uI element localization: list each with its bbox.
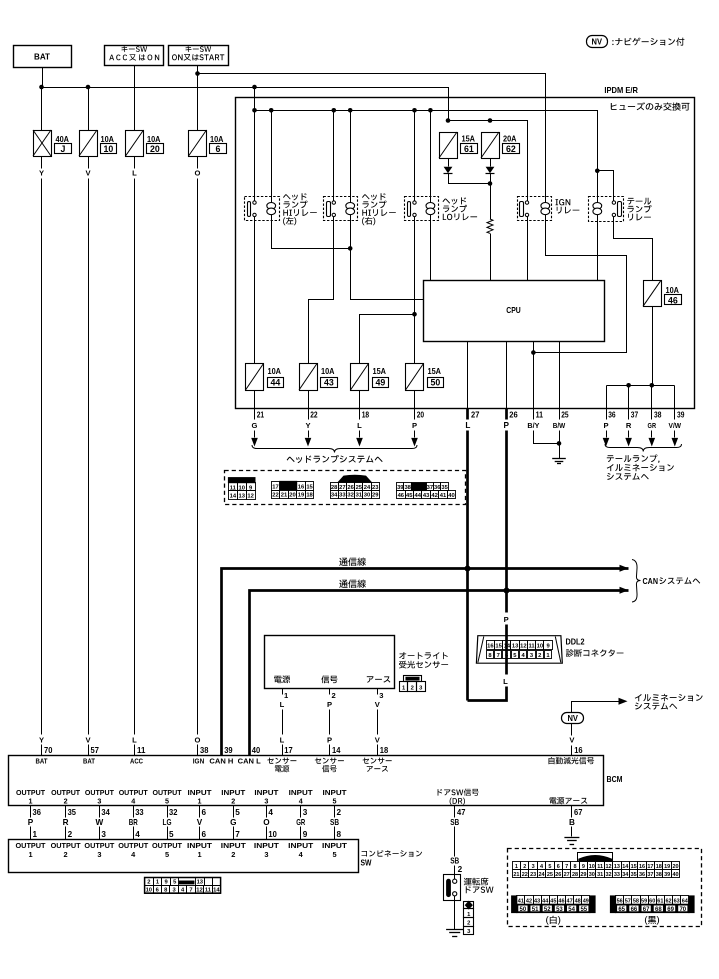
brace headlamp system xyxy=(252,445,417,453)
junction tail bus 38 xyxy=(650,383,655,388)
key switch ON/START xyxy=(169,46,229,66)
svg-text:11: 11 xyxy=(536,411,544,420)
junction LO fuses xyxy=(412,312,417,317)
wire fuse to BCM pin 38 lower xyxy=(197,745,199,756)
svg-text:V/W: V/W xyxy=(669,421,682,430)
wire color P pin 36 xyxy=(603,421,608,430)
BCM label xyxy=(607,775,623,784)
wire relay2 contact to fuse43 xyxy=(309,217,334,364)
svg-text:47: 47 xyxy=(567,899,573,905)
wire color SB door lower xyxy=(450,857,459,866)
connector block 4 xyxy=(397,483,456,500)
wire color L upper xyxy=(132,169,137,178)
svg-text:INPUT: INPUT xyxy=(221,841,247,850)
wire BCM pin 33 upper xyxy=(134,806,145,818)
junction fuse61 feed xyxy=(446,118,451,123)
wire to combo pin 7 xyxy=(234,827,241,840)
wire color O combo xyxy=(263,818,270,827)
svg-text:1: 1 xyxy=(28,850,32,859)
svg-text:4: 4 xyxy=(131,797,135,806)
svg-text:SW: SW xyxy=(361,859,373,868)
svg-text:L: L xyxy=(503,677,508,686)
wire color GR pin 38 xyxy=(648,421,657,430)
svg-text:11: 11 xyxy=(205,888,212,894)
wire START to fuse xyxy=(197,66,199,131)
resistor R1 xyxy=(487,219,493,233)
svg-text:1: 1 xyxy=(198,797,202,806)
junction BAT bus 1 xyxy=(39,85,44,90)
svg-text:40A: 40A xyxy=(56,135,70,144)
svg-text:V: V xyxy=(197,818,203,827)
svg-text:2: 2 xyxy=(64,850,68,859)
wire to combo pin 4 xyxy=(134,827,141,840)
wire to door SW xyxy=(454,827,456,875)
BCM label OUTPUT 2 xyxy=(51,788,81,806)
sensor wire color V lower xyxy=(375,736,381,745)
BCM connector black label xyxy=(645,916,659,925)
BCM label ACC xyxy=(130,757,143,766)
sensor wire color V upper xyxy=(375,700,381,709)
wire BCM pin 5 upper xyxy=(234,806,241,818)
wire arrow pin 36 xyxy=(603,431,610,447)
svg-text:24: 24 xyxy=(538,872,545,878)
svg-text:2: 2 xyxy=(68,830,73,839)
fuse 15A 61 xyxy=(439,132,458,159)
svg-text:7: 7 xyxy=(497,653,500,659)
BCM connector white label xyxy=(546,916,560,925)
svg-text:10: 10 xyxy=(104,144,114,154)
svg-text:2: 2 xyxy=(538,653,541,659)
pin 37 IPDM xyxy=(629,409,639,420)
wire into door SW xyxy=(454,875,456,880)
svg-text:B/Y: B/Y xyxy=(527,421,539,430)
pin 36 IPDM xyxy=(607,409,617,420)
svg-text:14: 14 xyxy=(230,493,237,499)
wire relay3 contact down xyxy=(414,217,416,315)
svg-text:12: 12 xyxy=(196,888,202,894)
fuse 10A 10 xyxy=(79,130,98,157)
svg-text:36: 36 xyxy=(608,411,616,420)
svg-text:46: 46 xyxy=(558,899,564,905)
svg-text:5: 5 xyxy=(165,797,169,806)
svg-text:1: 1 xyxy=(156,880,160,886)
wire BCM pin 32 upper xyxy=(168,806,178,818)
wire color R pin 37 xyxy=(626,421,632,430)
wire arrow pin 22 xyxy=(305,431,312,447)
svg-text:67: 67 xyxy=(643,907,650,913)
svg-text:20A: 20A xyxy=(503,135,517,144)
svg-text:44: 44 xyxy=(271,378,281,388)
svg-text:28: 28 xyxy=(331,485,338,491)
BCM pin 39 xyxy=(224,746,233,755)
svg-text:BCM: BCM xyxy=(607,775,623,784)
svg-text:13: 13 xyxy=(238,493,245,499)
wire color V upper xyxy=(85,169,91,178)
combination SW label xyxy=(361,850,423,867)
svg-text:64: 64 xyxy=(682,899,689,905)
svg-text:OUTPUT: OUTPUT xyxy=(51,841,81,850)
relay HI left label xyxy=(283,193,317,225)
svg-text:34: 34 xyxy=(622,872,629,878)
svg-text:3: 3 xyxy=(303,808,308,817)
BCM pin 18 xyxy=(380,746,389,755)
CPU U1 xyxy=(424,281,605,342)
wire color SB combo xyxy=(330,818,339,827)
svg-text:50: 50 xyxy=(520,907,527,913)
fuse 20A 62 label xyxy=(503,135,520,154)
wire relay3 coil feed xyxy=(430,111,432,203)
svg-text:33: 33 xyxy=(614,872,620,878)
wire color B/Y xyxy=(527,421,539,430)
svg-text:21: 21 xyxy=(257,411,265,420)
svg-text:43: 43 xyxy=(423,493,430,499)
svg-text:2: 2 xyxy=(231,797,235,806)
svg-text:DDL2: DDL2 xyxy=(566,638,586,647)
combo label INPUT 5 xyxy=(322,841,348,859)
BCM label IGN xyxy=(193,757,205,766)
svg-text:3: 3 xyxy=(97,850,101,859)
fuse 10A 10 label xyxy=(101,135,117,154)
svg-text:22: 22 xyxy=(272,493,278,499)
sensor wire color P lower xyxy=(327,736,332,745)
combo label INPUT 4 xyxy=(288,841,314,859)
svg-text:G: G xyxy=(230,818,236,827)
wire bus to fuse J xyxy=(41,88,43,131)
svg-text:BAT: BAT xyxy=(83,757,96,766)
fuse 10A 46 label xyxy=(665,286,682,305)
wire color SB door upper xyxy=(450,818,459,827)
IGN feed line xyxy=(198,74,546,203)
relay tail lamp xyxy=(589,197,624,222)
wire BAT to bus xyxy=(42,68,44,88)
CAN line 2 (to BCM pin 40) xyxy=(250,587,629,756)
IPDM E/R label xyxy=(604,85,638,95)
wire color P pin 26 xyxy=(503,421,509,430)
fuse 15A 50 label xyxy=(428,367,444,388)
BAT bus xyxy=(42,88,449,121)
svg-text:6: 6 xyxy=(202,808,207,817)
wire to combo pin 5 xyxy=(168,827,175,840)
wire node 11 to pin 11 xyxy=(533,353,535,409)
wire arrow pin 37 xyxy=(625,431,632,447)
BCM pin 70 xyxy=(44,746,53,755)
svg-text:1: 1 xyxy=(284,691,289,700)
NV legend text xyxy=(612,38,684,46)
svg-text:16: 16 xyxy=(574,746,583,755)
BCM label power ground xyxy=(550,797,588,804)
svg-text:OUTPUT: OUTPUT xyxy=(16,841,46,850)
door SW connector xyxy=(464,901,474,936)
wire relay1 contact to fuse44 xyxy=(254,217,256,364)
svg-text:R: R xyxy=(63,818,69,827)
wire color BR combo xyxy=(129,818,138,827)
fuse 10A 43 xyxy=(299,364,318,391)
autolight sensor label xyxy=(399,652,448,668)
BCM label BAT 57 xyxy=(83,757,96,766)
svg-text:37: 37 xyxy=(647,872,653,878)
BCM label OUTPUT 3 xyxy=(85,788,115,806)
combination SW connector xyxy=(145,878,221,894)
wire color V/W pin 39 xyxy=(669,421,682,430)
svg-text:29: 29 xyxy=(580,872,586,878)
junction BAT bus 2 xyxy=(86,85,91,90)
wire color L DDL2 xyxy=(503,677,508,686)
svg-text:14: 14 xyxy=(213,888,220,894)
wire CPU to pin 26 xyxy=(506,342,508,409)
svg-text:GR: GR xyxy=(296,818,305,827)
svg-text:O: O xyxy=(195,736,201,745)
wire BCM pin 35 upper xyxy=(66,806,77,818)
door SW pin 2 xyxy=(458,865,463,874)
sensor wire 2 xyxy=(329,710,331,735)
fuse 10A 6 label xyxy=(210,135,227,154)
combo label INPUT 1 xyxy=(187,841,213,859)
svg-text:41: 41 xyxy=(440,493,447,499)
wire fuse to BCM pin 57 lower xyxy=(88,745,90,756)
svg-text:17: 17 xyxy=(272,484,278,490)
wire color V combo xyxy=(197,818,203,827)
junction relay bus 1 xyxy=(252,108,257,113)
svg-text:69: 69 xyxy=(667,907,674,913)
wire color B ground xyxy=(569,818,575,827)
svg-text:15A: 15A xyxy=(428,367,442,376)
svg-text:53: 53 xyxy=(556,907,563,913)
svg-text:NV: NV xyxy=(592,37,603,46)
svg-text:27: 27 xyxy=(471,411,480,420)
BCM label INPUT 3 xyxy=(254,788,279,806)
svg-text:49: 49 xyxy=(376,378,386,388)
wire color G combo xyxy=(230,818,236,827)
svg-text:18: 18 xyxy=(362,411,370,420)
svg-text:17: 17 xyxy=(284,746,293,755)
wire CPU to node 11 xyxy=(533,342,535,353)
svg-text:3: 3 xyxy=(379,691,383,700)
wire relay2 contact feed xyxy=(333,111,335,201)
wire NV to illumination xyxy=(572,698,628,713)
svg-text:43: 43 xyxy=(324,378,334,388)
BCM label sensor signal xyxy=(315,758,344,773)
junction relay bus 2 xyxy=(269,108,274,113)
svg-text:SB: SB xyxy=(450,818,459,827)
BCM label auto-dim signal xyxy=(549,757,595,764)
svg-text:39: 39 xyxy=(664,872,670,878)
svg-text:3: 3 xyxy=(97,797,101,806)
svg-text:1: 1 xyxy=(197,850,201,859)
BCM pin 16 xyxy=(574,746,583,755)
wire color P DDL2 xyxy=(504,615,509,624)
fuse bus 61-62 xyxy=(449,121,528,201)
svg-text:23: 23 xyxy=(530,872,536,878)
sensor pin 3 stub xyxy=(378,689,384,700)
svg-text:45: 45 xyxy=(406,493,413,499)
connector detail dashed box xyxy=(225,471,466,505)
svg-text:26: 26 xyxy=(347,485,354,491)
svg-text:10A: 10A xyxy=(101,135,115,144)
svg-text:38: 38 xyxy=(654,411,662,420)
svg-text:4: 4 xyxy=(268,808,273,817)
wire fuse to BCM pin 11 upper xyxy=(134,157,136,169)
BCM connector black xyxy=(610,896,694,914)
svg-text:31: 31 xyxy=(597,872,603,878)
svg-text:INPUT: INPUT xyxy=(187,841,213,850)
svg-text:P: P xyxy=(28,818,34,827)
relay IGN xyxy=(518,197,552,221)
illumination system label xyxy=(635,694,703,710)
sensor connector 1-2-3 xyxy=(400,676,426,692)
wire tail bus to pin 38 xyxy=(651,386,653,409)
CAN-L wire pin 27 to DDL2 xyxy=(468,431,507,701)
sensor wire color P upper xyxy=(327,700,332,709)
svg-text:40: 40 xyxy=(672,872,678,878)
wire fuse to BCM pin 11 main xyxy=(134,179,136,735)
sensor terminal labels xyxy=(274,675,390,683)
svg-text:CAN L: CAN L xyxy=(238,757,262,766)
fuse 40A J xyxy=(33,130,52,157)
svg-text:21: 21 xyxy=(513,872,519,878)
svg-text:INPUT: INPUT xyxy=(288,841,314,850)
sensor wire color L upper xyxy=(280,700,285,709)
combo label OUTPUT 1 xyxy=(16,841,46,859)
pin 26 IPDM xyxy=(509,411,518,420)
svg-text:35: 35 xyxy=(631,872,637,878)
BCM pin 40 xyxy=(252,746,261,755)
wire fuse to pin 18 xyxy=(359,391,361,409)
svg-text:2: 2 xyxy=(411,685,414,691)
wire to fuse50 xyxy=(414,315,416,364)
svg-text:2: 2 xyxy=(337,808,342,817)
wire color Y lower xyxy=(39,736,44,745)
svg-text:55: 55 xyxy=(580,907,587,913)
fuse 10A 46 xyxy=(643,280,662,306)
pin 21 IPDM xyxy=(255,409,265,420)
svg-text:31: 31 xyxy=(356,493,363,499)
sensor pin 1 stub xyxy=(283,689,290,700)
svg-text:BR: BR xyxy=(129,818,138,827)
connector block 3 xyxy=(331,475,380,499)
svg-text:V: V xyxy=(85,169,91,178)
svg-text:L: L xyxy=(465,421,470,430)
svg-text:O: O xyxy=(195,169,201,178)
BCM label OUTPUT 1 xyxy=(16,788,46,806)
svg-text:8: 8 xyxy=(337,830,342,839)
svg-text:37: 37 xyxy=(631,411,639,420)
wire tail bus to pin 37 xyxy=(628,386,630,409)
svg-text:OUTPUT: OUTPUT xyxy=(118,841,148,850)
wire BCM pin 4 upper xyxy=(267,806,274,818)
junction IGN feed xyxy=(195,71,200,76)
fuse 15A 61 label xyxy=(461,135,478,154)
wire BCM pin 47 xyxy=(455,806,466,818)
wire P into DDL2 xyxy=(505,625,508,664)
wire fuse to BCM pin 11 lower xyxy=(134,745,136,756)
wire fuse to pin 20 xyxy=(414,391,416,409)
fuse 10A 6 xyxy=(189,130,207,157)
svg-text:46: 46 xyxy=(668,295,678,305)
svg-text:14: 14 xyxy=(504,644,511,650)
svg-text:52: 52 xyxy=(544,907,551,913)
wire B to ground xyxy=(571,827,573,837)
wire door SW to ground xyxy=(454,896,456,930)
wire color O lower xyxy=(195,736,201,745)
svg-text:60: 60 xyxy=(649,899,655,905)
svg-text:19: 19 xyxy=(298,493,305,499)
svg-text:70: 70 xyxy=(44,746,53,755)
BCM label INPUT 1 xyxy=(188,788,213,806)
wire fuse to BCM pin 57 main xyxy=(88,179,90,735)
svg-text:20: 20 xyxy=(150,144,160,154)
DDL2 label xyxy=(566,638,624,657)
wire fuse to BCM pin 38 main xyxy=(197,179,199,735)
svg-text:33: 33 xyxy=(135,808,144,817)
svg-text:2: 2 xyxy=(64,797,68,806)
fuse 15A 49 xyxy=(351,364,369,391)
ground door SW xyxy=(446,930,463,937)
wire to combo pin 2 xyxy=(66,827,73,840)
svg-text:22: 22 xyxy=(522,872,528,878)
svg-text:12: 12 xyxy=(247,493,253,499)
svg-text:20: 20 xyxy=(417,411,425,420)
wire relay3 coil to CPU xyxy=(430,215,432,281)
svg-text:P: P xyxy=(504,615,509,624)
svg-text:B: B xyxy=(569,818,575,827)
svg-text:32: 32 xyxy=(169,808,178,817)
svg-text:P: P xyxy=(503,421,509,430)
relay IGN label xyxy=(556,199,580,214)
svg-text:L: L xyxy=(132,736,137,745)
BCM label OUTPUT 5 xyxy=(153,788,183,806)
wire to combo pin 3 xyxy=(100,827,107,840)
wire relay1 contact feed xyxy=(254,111,256,201)
BCM label INPUT 2 xyxy=(221,788,246,806)
junction relay bus 5 xyxy=(412,108,417,113)
pin 39 IPDM xyxy=(675,409,685,420)
connector block 2 xyxy=(272,481,314,498)
svg-text:39: 39 xyxy=(677,411,685,420)
wire to combo pin 8 xyxy=(335,827,342,840)
svg-text:L: L xyxy=(280,736,285,745)
wire arrow pin 18 xyxy=(356,431,363,447)
svg-text:21: 21 xyxy=(281,493,288,499)
svg-text:63: 63 xyxy=(674,899,680,905)
junction relay bus 4 xyxy=(348,108,353,113)
svg-text:4: 4 xyxy=(299,797,303,806)
door SW label xyxy=(464,878,494,894)
junction CAN2 xyxy=(504,588,510,594)
svg-text:56: 56 xyxy=(617,899,623,905)
CAN system brace xyxy=(632,560,641,603)
combo label INPUT 3 xyxy=(254,841,280,859)
svg-text:1: 1 xyxy=(402,685,406,691)
ground IPDM xyxy=(552,459,566,464)
fuse 20A 62 xyxy=(481,132,500,159)
sensor pin 2 stub xyxy=(330,689,336,700)
svg-text:48: 48 xyxy=(575,899,581,905)
wire bus to relay bus xyxy=(254,88,256,111)
autolight sensor box xyxy=(265,636,395,689)
wire relay1 coil feed xyxy=(271,111,273,203)
svg-text:29: 29 xyxy=(372,493,379,499)
fuse 40A J label xyxy=(55,135,72,154)
relay headlamp HI right xyxy=(324,197,358,221)
svg-text:1: 1 xyxy=(33,830,38,839)
svg-text:GR: GR xyxy=(648,421,657,430)
combo label INPUT 2 xyxy=(221,841,247,859)
svg-text:5: 5 xyxy=(165,850,169,859)
sensor wire to BCM pin 18 xyxy=(377,745,379,756)
IPDM E/R box xyxy=(236,98,695,409)
junction HI coils xyxy=(348,246,353,251)
wire color L lower xyxy=(132,736,137,745)
